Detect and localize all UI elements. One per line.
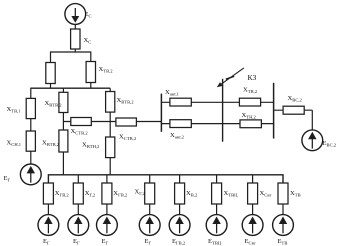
svg-text:ХТВЦ: ХТВЦ (224, 190, 239, 198)
source EG3 (97, 215, 118, 236)
resistor XG4 (145, 183, 155, 204)
branch1 wires (38, 183, 59, 235)
resistor XTN,2 rail1 right (239, 98, 260, 106)
svg-text:ХТВ,1: ХТВ,1 (7, 106, 22, 115)
svg-text:Хавт,1: Хавт,1 (165, 89, 180, 98)
resistor XG3 (102, 183, 112, 204)
wire col3 top (109, 88, 111, 91)
svg-text:КЗ: КЗ (248, 73, 257, 82)
svg-text:ХТН,2: ХТН,2 (242, 112, 257, 121)
branch2 wire (77, 175, 79, 183)
svg-text:ХГ,2: ХГ,2 (135, 189, 146, 198)
svg-text:ЕГ: ЕГ (145, 238, 152, 246)
wire col2 top (62, 88, 64, 92)
wire left down to bus1 (50, 84, 52, 89)
svg-text:ХТВ,2: ХТВ,2 (99, 66, 114, 75)
svg-text:ЕГ: ЕГ (102, 238, 109, 246)
right busbar (273, 83, 275, 139)
bus node1 horizontal (30, 87, 110, 89)
svg-text:ХВТН,2: ХВТН,2 (82, 142, 100, 151)
wire col2 to bottom bus (62, 152, 64, 175)
svg-text:ХВС,2: ХВС,2 (288, 95, 303, 104)
svg-text:ЕСвт: ЕСвт (245, 238, 256, 246)
source EG7 (242, 215, 263, 236)
wire col3 mid (109, 112, 111, 137)
svg-text:ЕГВ,2: ЕГВ,2 (172, 238, 186, 246)
resistor XG8 (278, 183, 288, 204)
svg-text:ХС: ХС (84, 37, 92, 45)
fault busbar (222, 79, 224, 142)
branch8 wires (282, 204, 284, 215)
svg-text:Хавт,2: Хавт,2 (170, 132, 185, 141)
bottom branches (38, 175, 293, 236)
rail2 line (161, 123, 274, 125)
svg-text:ХСТВ,2: ХСТВ,2 (71, 128, 89, 137)
wire split horizontal (51, 52, 91, 62)
resistor Xavt,1 rail1 left (170, 98, 191, 106)
resistor XVTN,2 col3 lower (106, 137, 115, 158)
source EG6 (206, 215, 227, 236)
source Evs (302, 130, 323, 151)
svg-text:ХВ,2: ХВ,2 (186, 190, 198, 199)
svg-text:ЕГ: ЕГ (73, 238, 80, 246)
wire Xvs (274, 109, 312, 111)
source EG4 (139, 215, 160, 236)
svg-text:ЕГ: ЕГ (43, 238, 50, 246)
source EG2 (68, 215, 89, 236)
resistor XG6 (212, 183, 222, 204)
wire right down to bus1 (90, 83, 92, 89)
resistor XVTV,2 col3 upper (106, 92, 115, 113)
resistor Xvs (283, 106, 304, 114)
rail mid horizontal (63, 121, 161, 123)
branch6 wire (216, 175, 218, 183)
branch4 wire (149, 175, 151, 183)
svg-text:ХВТВ,2: ХВТВ,2 (117, 97, 135, 106)
resistor XTV,1 col1 (26, 98, 35, 118)
svg-text:ЕТВ: ЕТВ (278, 238, 288, 246)
svg-text:ХСвт: ХСвт (260, 190, 272, 198)
wire col2 mid (62, 113, 64, 131)
resistor Xc (71, 29, 80, 49)
svg-text:ХСТВ,2: ХСТВ,2 (119, 134, 137, 143)
wire col1 to Eg (30, 151, 32, 164)
junction busbar (160, 94, 162, 132)
resistor XTN,1 col1 (26, 131, 35, 151)
rail1 line (161, 101, 274, 103)
resistor XG2 (73, 183, 83, 204)
svg-text:ХСН,1: ХСН,1 (7, 140, 22, 149)
wire col1 top (30, 88, 32, 98)
wire col3 to bottom bus (109, 158, 111, 175)
bottom bus (48, 175, 283, 183)
svg-text:ХТВ,2: ХТВ,2 (243, 87, 258, 96)
resistor XTN,3 rail2 right (240, 120, 261, 128)
svg-text:ЕВС,2: ЕВС,2 (323, 140, 337, 149)
lightning KZ arrow (221, 68, 244, 84)
resistor XTV1 left (46, 63, 55, 84)
svg-text:ХГВ,2: ХГВ,2 (113, 190, 128, 199)
source EG8 (273, 215, 294, 236)
resistor XSTN,2 on mid rail (116, 118, 136, 126)
branch3 wire (106, 175, 108, 183)
resistor XG7 (248, 183, 258, 204)
svg-text:ХТВ: ХТВ (290, 190, 301, 198)
svg-text:ЕГ: ЕГ (4, 175, 11, 183)
svg-text:ЕТВЦ: ЕТВЦ (208, 238, 222, 246)
source Eg (20, 164, 41, 185)
source Ec (65, 4, 86, 25)
resistor XVTV,2 col2 lower (59, 130, 68, 152)
wire Xc to split (74, 49, 76, 52)
source EG5 (169, 215, 190, 236)
branch5 wire (179, 175, 181, 183)
wire Ec to Xc (74, 24, 76, 29)
resistor Xavt,2 rail2 left (170, 120, 191, 128)
svg-text:ХВТВ,2: ХВТВ,2 (42, 140, 60, 149)
resistor XVTV,2 col2 upper (59, 92, 68, 112)
svg-text:ХГ,2: ХГ,2 (85, 190, 96, 199)
source EG1 (38, 215, 59, 236)
svg-text:ХГВ,2: ХГВ,2 (55, 190, 70, 199)
svg-text:ЕС: ЕС (85, 11, 92, 19)
resistor XG5 (175, 183, 185, 204)
resistor XG1 (43, 183, 53, 204)
resistor XTV2 right (86, 62, 95, 83)
resistor XSTV,2 on mid rail (71, 118, 92, 126)
branch7 wire (252, 175, 254, 183)
wire col1 mid (30, 119, 32, 131)
wire down to Evs (311, 110, 313, 130)
